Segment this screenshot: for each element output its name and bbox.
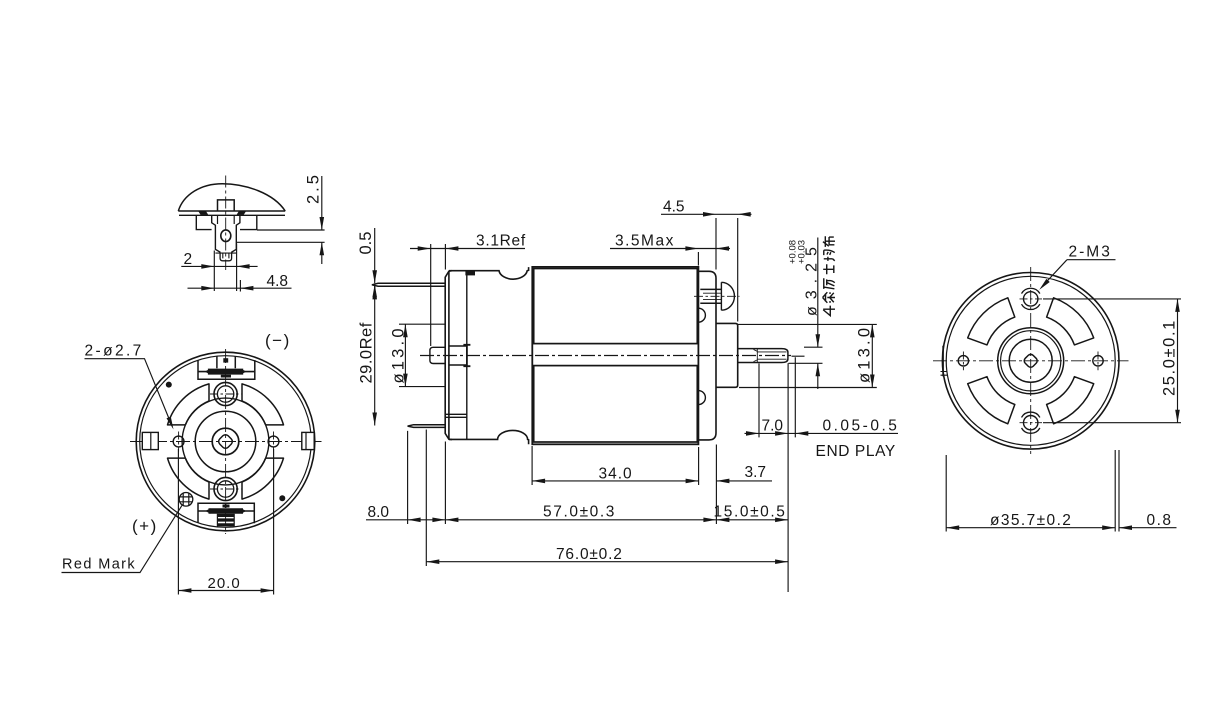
outer flange circle	[942, 273, 1119, 450]
vent slot lower-right	[242, 458, 284, 499]
end cap inner face line	[448, 271, 450, 439]
shaft	[738, 349, 788, 363]
dim 2.5	[237, 172, 325, 264]
knurl lines	[757, 349, 786, 363]
chord double line	[178, 211, 285, 215]
svg-text:Red Mark: Red Mark	[62, 557, 136, 573]
svg-text:2-ø2.7: 2-ø2.7	[85, 343, 144, 360]
bushing bump protruding left of cap	[430, 347, 445, 363]
screw thread hatches	[703, 293, 721, 299]
bottom brush bar thin extensions	[199, 503, 255, 511]
south eyelet centerline	[210, 488, 241, 490]
svg-text:4.8: 4.8	[267, 273, 289, 290]
boss inner circle	[1009, 339, 1052, 382]
vent slot upper-left	[168, 384, 210, 425]
left flat	[942, 346, 944, 377]
bushing right edge with serifs	[463, 345, 470, 367]
top terminal	[372, 283, 445, 286]
bottom magnet rectangle	[534, 366, 698, 442]
svg-text:(−): (−)	[265, 331, 291, 350]
bottom terminal	[408, 425, 446, 428]
svg-text:8.0: 8.0	[368, 504, 390, 521]
top brush lower tab (black)	[221, 375, 231, 378]
vent slot SE	[1047, 377, 1094, 424]
char tiao	[823, 292, 835, 303]
top brush bar thin extensions	[199, 371, 255, 373]
east hole	[1093, 352, 1103, 371]
terminal outer	[220, 253, 232, 261]
note 4 slots evenly text (CJK drawn as strokes)	[823, 236, 835, 315]
crosshair horizontal centerline	[130, 441, 322, 443]
flat seam ticks	[941, 372, 948, 376]
svg-text:ø13.0: ø13.0	[390, 325, 408, 383]
terminal holder	[212, 215, 240, 253]
cap inner vertical line	[466, 271, 468, 440]
svg-text:2-M3: 2-M3	[1069, 244, 1112, 261]
svg-text:+0.03: +0.03	[797, 240, 808, 264]
skirt right	[240, 215, 257, 229]
cap bearing bushing (inside)	[449, 346, 466, 365]
motor can outline	[532, 267, 698, 444]
skirt left	[196, 215, 211, 229]
char bu	[823, 236, 835, 247]
svg-text:ø35.7±0.2: ø35.7±0.2	[990, 512, 1072, 529]
svg-text:2.5: 2.5	[305, 172, 323, 204]
crosshair horizontal centerline	[933, 360, 1129, 362]
dim 7.0 / end play row	[745, 357, 900, 592]
top brush square (black)	[223, 358, 228, 362]
dim 20.0	[178, 449, 273, 595]
dim 76.0 row	[426, 546, 788, 564]
dim 29.0Ref	[358, 284, 378, 425]
end cap left face	[445, 271, 452, 440]
vent slot lower-left	[168, 458, 210, 499]
weld dot lower-right	[279, 495, 285, 501]
inner body circle	[946, 276, 1115, 445]
svg-text:ø13.0: ø13.0	[856, 325, 874, 383]
dim 34.0 / 3.7 row	[532, 446, 772, 485]
crosshair vertical centerline	[1030, 267, 1032, 454]
svg-text:76.0±0.2: 76.0±0.2	[556, 546, 623, 563]
south eyelet inner	[217, 481, 233, 497]
end bell	[698, 271, 716, 440]
brush cavity bump upper	[698, 308, 705, 322]
vertical centerline	[225, 176, 227, 271]
weld dot upper-left	[166, 382, 172, 388]
M3 hole north	[1020, 288, 1043, 309]
svg-text:0.8: 0.8	[1147, 512, 1173, 529]
svg-text:34.0: 34.0	[599, 465, 633, 482]
char 4	[823, 306, 835, 316]
char shi	[823, 264, 834, 274]
bottom brush stack side walls	[217, 514, 234, 527]
crosshair vertical centerline	[225, 349, 227, 534]
label 2-d2.7 with leader	[85, 343, 176, 431]
svg-text:0.5: 0.5	[357, 232, 375, 255]
svg-text:END PLAY: END PLAY	[816, 443, 896, 460]
terminal inner walls through holder	[218, 215, 235, 224]
cap brush tab (black)	[465, 270, 475, 275]
west hole centerline	[178, 432, 180, 452]
cap bottom step double line	[445, 414, 466, 417]
bearing boss	[716, 323, 738, 387]
terminal tab above chord	[218, 200, 235, 211]
bottom brush housing	[198, 503, 254, 523]
north eyelet inner	[217, 386, 233, 402]
south eyelet outer	[214, 477, 237, 500]
big inner circle	[182, 398, 269, 485]
svg-text:(+): (+)	[132, 517, 158, 536]
svg-text:3.7: 3.7	[745, 464, 767, 481]
dim left diameter 13.0	[390, 324, 446, 386]
svg-text:15.0±0.5: 15.0±0.5	[714, 504, 787, 521]
svg-text:57.0±0.3: 57.0±0.3	[543, 504, 616, 521]
top brush bar (black)	[208, 369, 243, 375]
north eyelet centerline	[210, 393, 241, 395]
cap bottom edge with notch	[449, 430, 529, 444]
label 2-M3 with leader	[1038, 244, 1116, 292]
dim 25.0	[1043, 299, 1181, 423]
boss outer circle	[998, 328, 1064, 394]
dim right diameter 13.0	[738, 324, 877, 387]
west hole	[958, 352, 968, 371]
screw centerline	[694, 295, 740, 297]
dome	[178, 184, 285, 211]
bottom brush bar (black)	[209, 508, 244, 514]
dim shaft diameter 3.25	[788, 238, 823, 390]
svg-text:20.0: 20.0	[208, 575, 241, 592]
vent slot NW	[968, 298, 1015, 345]
svg-text:7.0: 7.0	[762, 417, 784, 434]
north eyelet outer	[214, 382, 237, 405]
char li	[824, 278, 835, 289]
terminal inner	[215, 253, 236, 258]
top brush inner walls	[217, 357, 235, 369]
west hole 2.7	[173, 436, 184, 447]
shaft centerline	[420, 355, 791, 357]
dim 3.1Ref	[410, 233, 526, 346]
top brush housing	[198, 360, 255, 379]
shaft hole rounded square	[1023, 353, 1039, 369]
inner rim circle	[140, 356, 312, 528]
hub circle	[212, 428, 239, 455]
shaft hole rounded square	[217, 433, 234, 450]
bottom brush top mark	[223, 505, 230, 508]
bearing boss circle	[195, 411, 256, 472]
bottom brush stack stripes	[217, 515, 234, 524]
svg-text:4.5: 4.5	[663, 199, 685, 216]
screw body	[700, 289, 721, 303]
end play line	[792, 355, 805, 357]
east hole centerline	[273, 432, 275, 452]
east rim tab	[302, 432, 314, 449]
outer rim circle	[136, 352, 315, 531]
char jun	[824, 250, 835, 261]
brush cavity bump lower	[698, 391, 705, 405]
dim 0.5 (terminal thickness)	[357, 228, 377, 299]
svg-text:0.05-0.5: 0.05-0.5	[823, 417, 900, 434]
red mark circle	[179, 493, 193, 507]
label Red Mark with leader	[62, 506, 182, 573]
vent slot upper-right	[242, 384, 284, 425]
svg-text:2: 2	[184, 251, 193, 268]
svg-text:29.0Ref: 29.0Ref	[358, 322, 376, 383]
vent slot NE	[1047, 298, 1094, 345]
screw dome head	[721, 282, 734, 310]
svg-text:25.0±0.1: 25.0±0.1	[1161, 319, 1179, 396]
west rim tab	[142, 432, 158, 449]
cap top edge with notch	[449, 267, 529, 279]
bottom brush bar arrow ends	[205, 508, 246, 513]
dim 4.5	[661, 199, 752, 322]
top magnet rectangle	[534, 269, 698, 344]
terminal hole	[221, 230, 231, 242]
dim 8.0 / 57.0 / 15.0 row	[366, 430, 788, 567]
svg-text:3.5Max: 3.5Max	[615, 233, 675, 250]
flange clip marks	[198, 211, 246, 215]
knurl start tick	[754, 350, 758, 362]
top brush bar arrow ends	[205, 369, 247, 374]
east hole 2.7	[268, 436, 279, 447]
dim 0.8	[1119, 512, 1177, 530]
dim 4.8	[188, 273, 292, 292]
svg-text:3.1Ref: 3.1Ref	[476, 233, 526, 250]
boss outer circle 2	[1001, 331, 1061, 391]
M3 hole south	[1020, 412, 1043, 433]
dim 3.5Max	[610, 233, 730, 266]
vent slot SW	[968, 377, 1015, 424]
dim 2	[181, 244, 257, 292]
dim 35.7	[946, 450, 1119, 532]
